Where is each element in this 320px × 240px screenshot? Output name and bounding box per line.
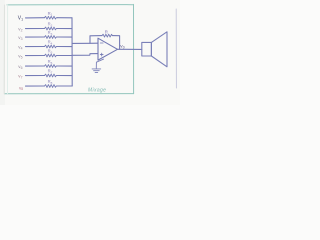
wire	[57, 65, 72, 67]
input v6 row	[26, 65, 73, 68]
wire bus to non-inverting input	[72, 54, 98, 56]
wire	[26, 65, 45, 67]
wire	[26, 17, 45, 19]
input v4 row	[26, 45, 73, 48]
feedback loop wire	[90, 36, 102, 44]
wire	[26, 46, 45, 48]
frame left faint line	[3, 5, 5, 94]
svg-text:R7: R7	[48, 69, 53, 75]
wire bus to inverting input	[72, 42, 98, 44]
paper background	[0, 0, 180, 105]
node bus	[71, 18, 73, 86]
wire	[57, 36, 72, 38]
input v8 row	[26, 85, 73, 88]
svg-text:R2: R2	[48, 22, 53, 28]
svg-text:R5: R5	[48, 49, 53, 55]
ground	[92, 59, 104, 72]
wire	[57, 85, 72, 87]
svg-text:R: R	[105, 30, 108, 35]
resistor R8	[45, 85, 58, 88]
input v7 row	[26, 74, 73, 77]
resistor R6	[45, 65, 58, 68]
wire	[57, 75, 72, 77]
resistor Rf	[102, 34, 112, 37]
frame right teal line	[133, 4, 135, 93]
svg-text:R3: R3	[48, 30, 53, 36]
input v1 row	[26, 16, 73, 19]
resistor R1	[45, 16, 58, 19]
right margin lavender line	[175, 9, 177, 88]
resistor R3	[45, 36, 58, 39]
wire	[26, 55, 45, 57]
wire	[57, 17, 72, 19]
frame top teal line	[7, 4, 134, 6]
input v2 row	[26, 27, 73, 30]
output wire	[118, 48, 142, 50]
op-amp U1	[98, 38, 118, 60]
svg-text:R4: R4	[48, 40, 53, 46]
resistor R4	[45, 45, 58, 48]
svg-text:R1: R1	[48, 11, 53, 17]
wire	[57, 28, 72, 30]
input v3 row	[26, 36, 73, 39]
wire	[26, 75, 45, 77]
svg-text:v0: v0	[120, 45, 124, 50]
feedback loop wire right	[112, 36, 119, 50]
wire	[57, 46, 72, 48]
resistor R5	[45, 54, 58, 57]
resistor R2	[45, 27, 58, 30]
frame left inner teal line	[7, 5, 9, 94]
svg-text:Mixage: Mixage	[88, 87, 106, 93]
wire	[26, 28, 45, 30]
wire	[26, 85, 45, 87]
speaker LS1	[142, 32, 167, 67]
frame bottom teal line	[5, 93, 134, 95]
wire	[57, 55, 72, 57]
svg-text:R8: R8	[48, 79, 53, 85]
input v5 row	[26, 54, 73, 57]
svg-text:R6: R6	[48, 59, 53, 65]
resistor R7	[45, 74, 58, 77]
wire	[26, 36, 45, 38]
